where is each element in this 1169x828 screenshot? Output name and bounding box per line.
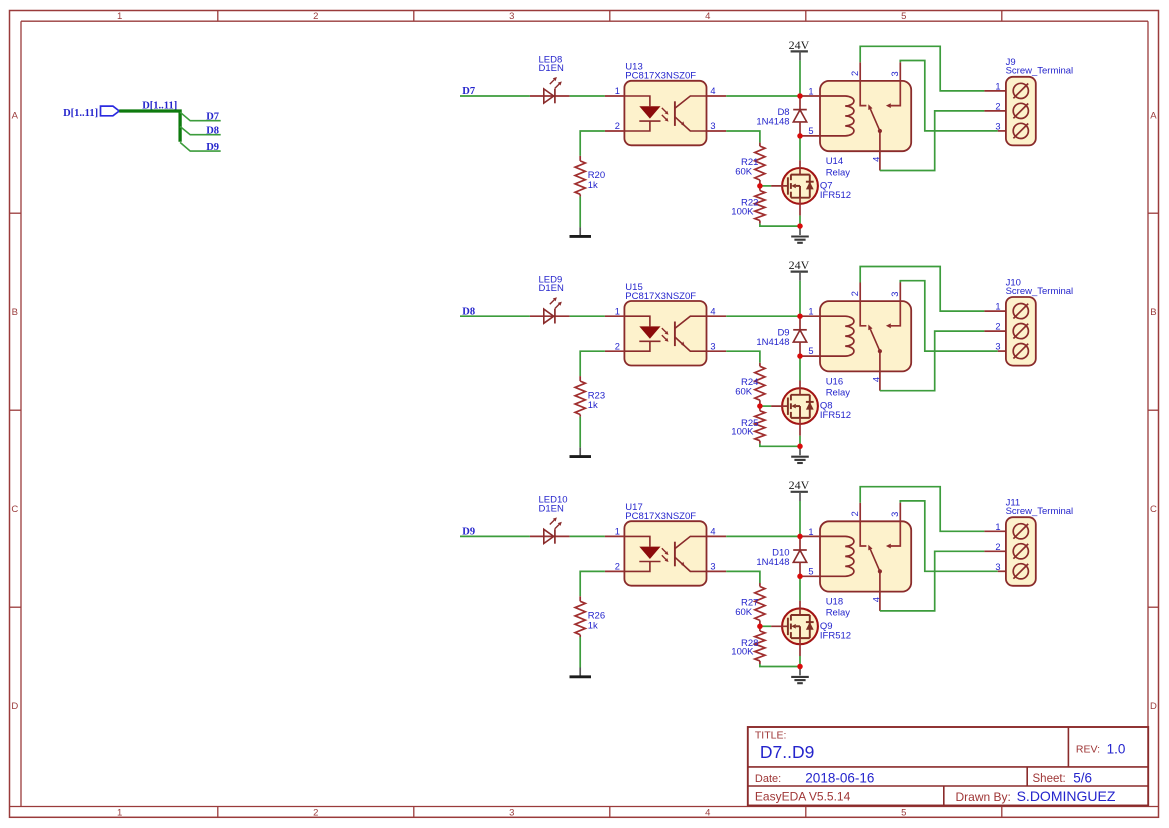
transistor Q8 IFR512 bbox=[782, 388, 818, 424]
wire node to Q9 drain bbox=[799, 576, 801, 600]
junction ground node bbox=[797, 664, 803, 670]
svg-text:IFR512: IFR512 bbox=[820, 190, 851, 201]
transistor Q7 IFR512 bbox=[782, 168, 818, 204]
svg-text:EasyEDA V5.5.14: EasyEDA V5.5.14 bbox=[755, 789, 851, 803]
svg-text:D: D bbox=[1150, 701, 1157, 712]
svg-text:5: 5 bbox=[808, 126, 813, 136]
svg-text:1N4148: 1N4148 bbox=[756, 117, 789, 128]
svg-text:1k: 1k bbox=[588, 400, 598, 411]
resistor R20 1k bbox=[579, 156, 581, 161]
wire U15 pin 2 to R23 bbox=[580, 351, 605, 376]
svg-text:1: 1 bbox=[615, 86, 620, 96]
svg-text:PC817X3NSZ0F: PC817X3NSZ0F bbox=[625, 511, 696, 522]
svg-text:4: 4 bbox=[710, 86, 715, 96]
svg-text:PC817X3NSZ0F: PC817X3NSZ0F bbox=[625, 71, 696, 82]
svg-text:U16: U16 bbox=[826, 376, 843, 387]
svg-text:24V: 24V bbox=[789, 38, 810, 52]
svg-text:IFR512: IFR512 bbox=[820, 630, 851, 641]
svg-text:A: A bbox=[12, 111, 19, 122]
svg-text:A: A bbox=[1150, 111, 1157, 122]
LED LED8 D1EN bbox=[530, 95, 570, 97]
relay coil bbox=[820, 96, 854, 136]
screw symbols bbox=[1013, 83, 1028, 98]
title block bbox=[748, 727, 1148, 806]
svg-text:Sheet:: Sheet: bbox=[1033, 773, 1066, 785]
svg-text:4: 4 bbox=[705, 808, 710, 819]
svg-text:1N4148: 1N4148 bbox=[756, 337, 789, 348]
wire U13 pin 4 to node bbox=[726, 95, 800, 97]
svg-text:1: 1 bbox=[808, 86, 813, 96]
connector J9 Screw_Terminal bbox=[984, 90, 1006, 92]
svg-text:D7: D7 bbox=[206, 112, 219, 123]
wire node to Q8 drain bbox=[799, 356, 801, 380]
junction ground node bbox=[797, 444, 803, 450]
svg-text:3: 3 bbox=[710, 341, 715, 351]
svg-text:1k: 1k bbox=[588, 620, 598, 631]
bus entry wire D9 bbox=[180, 142, 221, 151]
svg-text:60K: 60K bbox=[735, 166, 753, 177]
relay contacts bbox=[860, 283, 866, 326]
svg-text:5: 5 bbox=[901, 808, 906, 819]
wire relay pin 4 to J9 pin 2 bbox=[880, 111, 985, 171]
junction node relay pin 5 bbox=[797, 133, 803, 139]
ground bbox=[579, 227, 581, 235]
bus entry wire D7 bbox=[180, 112, 221, 121]
svg-text:24V: 24V bbox=[789, 478, 810, 492]
optocoupler U15 PC817X3NSZ0F bbox=[624, 301, 706, 366]
svg-text:1: 1 bbox=[117, 11, 122, 22]
wire D9 to LED bbox=[460, 535, 530, 537]
relay U16 bbox=[820, 301, 911, 371]
wire R25 to ground node bbox=[760, 444, 800, 447]
svg-text:Relay: Relay bbox=[826, 388, 851, 399]
resistor R27 60K bbox=[759, 583, 761, 587]
wire 24V rail bbox=[799, 501, 801, 536]
resistor R24 60K bbox=[759, 363, 761, 367]
svg-text:1: 1 bbox=[615, 527, 620, 537]
LED LED10 D1EN bbox=[530, 535, 570, 537]
wire R28 to ground node bbox=[760, 664, 800, 667]
svg-text:3: 3 bbox=[890, 71, 900, 76]
svg-text:2: 2 bbox=[615, 562, 620, 572]
svg-text:5/6: 5/6 bbox=[1073, 770, 1092, 785]
connector J11 Screw_Terminal bbox=[984, 530, 1006, 532]
svg-text:4: 4 bbox=[705, 11, 710, 22]
svg-text:U14: U14 bbox=[826, 156, 843, 167]
screw symbols bbox=[1013, 304, 1028, 319]
wire Q7 source to ground node bbox=[799, 216, 801, 227]
wire node to Q7 drain bbox=[799, 136, 801, 160]
optocoupler internals bbox=[624, 536, 650, 546]
svg-text:D1EN: D1EN bbox=[539, 63, 564, 74]
svg-text:C: C bbox=[11, 504, 18, 515]
wire U15 pin 4 to node bbox=[726, 315, 800, 317]
svg-text:Screw_Terminal: Screw_Terminal bbox=[1006, 506, 1074, 517]
svg-text:1: 1 bbox=[995, 302, 1000, 312]
optocoupler internals bbox=[624, 316, 650, 326]
svg-text:PC817X3NSZ0F: PC817X3NSZ0F bbox=[625, 291, 696, 302]
junction gate node bbox=[757, 183, 763, 189]
svg-text:2: 2 bbox=[615, 121, 620, 131]
bus entry port D[1..11] bbox=[101, 106, 120, 116]
wire 24V rail bbox=[799, 281, 801, 316]
svg-text:3: 3 bbox=[890, 292, 900, 297]
junction gate node bbox=[757, 403, 763, 409]
svg-text:5: 5 bbox=[808, 346, 813, 356]
svg-text:3: 3 bbox=[995, 342, 1000, 352]
svg-text:2: 2 bbox=[995, 102, 1000, 112]
svg-text:B: B bbox=[1150, 307, 1156, 318]
svg-text:Relay: Relay bbox=[826, 167, 851, 178]
relay U18 bbox=[820, 521, 911, 591]
wire LED to U17 pin 1 bbox=[570, 535, 605, 537]
junction node 24V / relay pin 1 bbox=[797, 534, 803, 540]
svg-text:2: 2 bbox=[615, 341, 620, 351]
wire relay pin 3 to J11 pin 3 bbox=[900, 501, 998, 571]
diode D8 1N4148 bbox=[799, 96, 801, 110]
svg-text:D[1..11]: D[1..11] bbox=[63, 108, 98, 119]
svg-text:B: B bbox=[12, 307, 18, 318]
svg-text:Screw_Terminal: Screw_Terminal bbox=[1006, 66, 1074, 77]
svg-text:5: 5 bbox=[808, 566, 813, 576]
svg-text:D8: D8 bbox=[206, 126, 219, 137]
wire relay pin 2 to J10 pin 1 bbox=[860, 267, 984, 312]
svg-text:IFR512: IFR512 bbox=[820, 410, 851, 421]
relay U14 bbox=[820, 81, 911, 151]
svg-text:4: 4 bbox=[710, 527, 715, 537]
svg-text:60K: 60K bbox=[735, 607, 753, 618]
svg-text:D1EN: D1EN bbox=[539, 283, 564, 294]
bus D[1..11] bbox=[119, 111, 180, 142]
frame row ticks right bbox=[1148, 212, 1159, 214]
earth ground bbox=[799, 446, 801, 455]
svg-text:1: 1 bbox=[615, 306, 620, 316]
optocoupler U17 PC817X3NSZ0F bbox=[624, 521, 706, 586]
diode D10 1N4148 bbox=[799, 536, 801, 550]
optocoupler U13 PC817X3NSZ0F bbox=[624, 81, 706, 146]
wire U17 pin 4 to node bbox=[726, 535, 800, 537]
svg-text:5: 5 bbox=[901, 11, 906, 22]
svg-text:2: 2 bbox=[995, 542, 1000, 552]
wire U15 pin 3 to R24 bbox=[726, 351, 760, 363]
earth ground bbox=[799, 667, 801, 676]
resistor R26 1k bbox=[579, 596, 581, 601]
svg-text:TITLE:: TITLE: bbox=[755, 729, 787, 741]
wire U13 pin 2 to R20 bbox=[580, 131, 605, 156]
svg-text:100K: 100K bbox=[731, 206, 754, 217]
wire relay pin 3 to J10 pin 3 bbox=[900, 281, 998, 351]
wire LED to U13 pin 1 bbox=[570, 95, 605, 97]
wire D8 to LED bbox=[460, 315, 530, 317]
wire R23 to ground bbox=[579, 417, 581, 448]
wire U17 pin 3 to R27 bbox=[726, 571, 760, 583]
junction gate node bbox=[757, 624, 763, 630]
svg-text:4: 4 bbox=[710, 306, 715, 316]
svg-text:S.DOMINGUEZ: S.DOMINGUEZ bbox=[1017, 788, 1116, 804]
svg-text:Relay: Relay bbox=[826, 608, 851, 619]
svg-text:D1EN: D1EN bbox=[539, 503, 564, 514]
svg-text:1k: 1k bbox=[588, 180, 598, 191]
svg-text:1N4148: 1N4148 bbox=[756, 557, 789, 568]
svg-text:60K: 60K bbox=[735, 387, 753, 398]
junction node 24V / relay pin 1 bbox=[797, 93, 803, 99]
wire U17 pin 2 to R26 bbox=[580, 571, 605, 596]
svg-text:3: 3 bbox=[509, 11, 514, 22]
ground bbox=[579, 447, 581, 455]
svg-text:1.0: 1.0 bbox=[1107, 742, 1126, 757]
wire relay pin 4 to J10 pin 2 bbox=[880, 331, 985, 391]
junction node 24V / relay pin 1 bbox=[797, 313, 803, 319]
wire relay pin 3 to J9 pin 3 bbox=[900, 61, 998, 131]
LED LED9 D1EN bbox=[530, 315, 570, 317]
screw symbols bbox=[1013, 524, 1028, 539]
svg-text:2: 2 bbox=[313, 808, 318, 819]
svg-text:Date:: Date: bbox=[755, 773, 781, 785]
wire U13 pin 3 to R21 bbox=[726, 131, 760, 143]
svg-text:2: 2 bbox=[850, 511, 860, 516]
svg-text:3: 3 bbox=[710, 121, 715, 131]
svg-text:D9: D9 bbox=[206, 142, 219, 153]
wire relay pin 2 to J9 pin 1 bbox=[860, 46, 984, 91]
relay coil bbox=[820, 316, 854, 356]
wire Q8 source to ground node bbox=[799, 436, 801, 447]
wire 24V rail bbox=[799, 61, 801, 96]
svg-text:C: C bbox=[1150, 504, 1157, 515]
resistor R28 100K bbox=[759, 626, 761, 631]
svg-text:U18: U18 bbox=[826, 597, 843, 608]
junction ground node bbox=[797, 223, 803, 229]
ground bbox=[579, 668, 581, 676]
wire D7 to LED bbox=[460, 95, 530, 97]
svg-text:2: 2 bbox=[313, 11, 318, 22]
frame inner border bbox=[21, 20, 1148, 22]
svg-text:3: 3 bbox=[995, 122, 1000, 132]
svg-text:Screw_Terminal: Screw_Terminal bbox=[1006, 286, 1074, 297]
wire Q9 source to ground node bbox=[799, 656, 801, 667]
wire R22 to ground node bbox=[760, 224, 800, 227]
svg-text:1: 1 bbox=[808, 307, 813, 317]
svg-text:3: 3 bbox=[509, 808, 514, 819]
svg-text:1: 1 bbox=[117, 808, 122, 819]
svg-text:2: 2 bbox=[995, 322, 1000, 332]
optocoupler internals bbox=[624, 96, 650, 106]
wire R20 to ground bbox=[579, 197, 581, 228]
svg-text:4: 4 bbox=[871, 157, 881, 162]
svg-text:REV:: REV: bbox=[1076, 743, 1100, 755]
svg-text:24V: 24V bbox=[789, 258, 810, 272]
svg-text:100K: 100K bbox=[731, 647, 754, 658]
svg-text:1: 1 bbox=[808, 527, 813, 537]
svg-text:D7..D9: D7..D9 bbox=[760, 742, 814, 762]
svg-text:4: 4 bbox=[871, 377, 881, 382]
relay contacts bbox=[860, 503, 866, 546]
relay coil bbox=[820, 536, 854, 576]
connector J10 Screw_Terminal bbox=[984, 310, 1006, 312]
svg-text:3: 3 bbox=[710, 562, 715, 572]
relay contacts bbox=[860, 62, 866, 105]
svg-text:D: D bbox=[11, 701, 18, 712]
frame column ticks top bbox=[217, 11, 219, 22]
svg-text:2: 2 bbox=[850, 71, 860, 76]
earth ground bbox=[799, 226, 801, 235]
wire gate node to Q9 gate bbox=[760, 625, 771, 627]
resistor R23 1k bbox=[579, 376, 581, 381]
resistor R22 100K bbox=[759, 186, 761, 191]
wire gate node to Q7 gate bbox=[760, 185, 771, 187]
junction node relay pin 5 bbox=[797, 574, 803, 580]
frame row ticks left bbox=[10, 212, 22, 214]
svg-text:2018-06-16: 2018-06-16 bbox=[805, 770, 874, 785]
frame column ticks bottom bbox=[217, 807, 219, 818]
svg-text:Drawn By:: Drawn By: bbox=[956, 790, 1011, 804]
diode D9 1N4148 bbox=[799, 316, 801, 330]
wire relay pin 2 to J11 pin 1 bbox=[860, 487, 984, 532]
wire R26 to ground bbox=[579, 637, 581, 668]
svg-text:2: 2 bbox=[850, 291, 860, 296]
svg-text:100K: 100K bbox=[731, 427, 754, 438]
wire LED to U15 pin 1 bbox=[570, 315, 605, 317]
wire relay pin 4 to J11 pin 2 bbox=[880, 551, 985, 611]
resistor R25 100K bbox=[759, 406, 761, 411]
wire gate node to Q8 gate bbox=[760, 405, 771, 407]
resistor R21 60K bbox=[759, 143, 761, 147]
svg-text:1: 1 bbox=[995, 82, 1000, 92]
bus entry wire D8 bbox=[180, 127, 221, 135]
svg-text:1: 1 bbox=[995, 522, 1000, 532]
junction node relay pin 5 bbox=[797, 353, 803, 359]
svg-text:3: 3 bbox=[995, 562, 1000, 572]
svg-text:3: 3 bbox=[890, 512, 900, 517]
svg-text:4: 4 bbox=[871, 597, 881, 602]
transistor Q9 IFR512 bbox=[782, 608, 818, 644]
